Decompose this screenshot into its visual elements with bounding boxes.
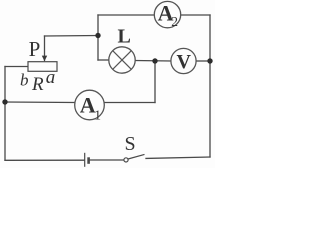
wire A2 to right top corner [181,14,211,16]
voltmeter V [171,48,196,73]
wire top from mid vertical to ammeter A2 [98,14,155,16]
wire rheostat wiper riser [44,36,46,61]
wire mid vertical [97,15,99,60]
ammeter A2 [154,0,180,29]
svg-text:b: b [20,71,29,90]
wire left to rheostat [5,66,28,68]
svg-text:1: 1 [94,108,101,123]
svg-text:V: V [177,51,192,73]
lamp L [109,47,135,73]
rheostat wiper arrowhead [42,56,47,62]
junction node wiper/mid [95,33,100,38]
wire left vertical [4,67,6,161]
svg-text:L: L [118,26,131,48]
wire voltmeter to right vertical [196,60,210,62]
battery cell [85,153,89,167]
wire bottom right (switch to right corner) [146,157,210,158]
svg-text:2: 2 [171,14,178,29]
wire lamp to node [135,60,171,63]
ammeter A1 [75,90,105,122]
wire battery to switch [90,159,124,161]
svg-text:R: R [31,74,44,95]
junction node left vertical/A1 [2,99,7,104]
wire wiper to mid junction [45,35,99,38]
wire bottom left (left corner to battery) [5,159,84,161]
wire node down to A1 level [154,61,156,103]
switch S [124,154,145,162]
svg-text:S: S [125,133,136,155]
wire A1 right [104,102,155,104]
svg-text:P: P [29,37,41,61]
wire A1 left [5,101,75,104]
wire mid vertical to lamp [98,59,109,61]
junction node V/right vertical [207,58,212,63]
junction node lamp/V/A1 [152,58,157,63]
wire right vertical [209,15,211,157]
svg-text:a: a [46,67,56,88]
rheostat R body [28,62,57,72]
